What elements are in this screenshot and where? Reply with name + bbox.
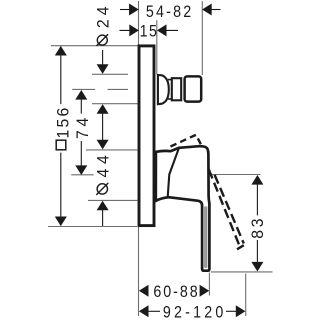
dashed lever tip	[237, 245, 244, 249]
knob flange	[158, 75, 169, 104]
svg-text:74: 74	[74, 114, 93, 139]
extension line V1 wall face top	[138, 1, 140, 45]
lever grip core	[204, 207, 207, 268]
dimension 92-120 bottom	[139, 303, 246, 320]
extension line V2 flange front	[156, 20, 158, 74]
dimension Ø44 lower arrow	[97, 201, 109, 226]
dimension 74 vertical	[74, 90, 93, 175]
extension line V4 wall face bottom	[138, 227, 140, 316]
dimension 54-82 top	[120, 3, 221, 21]
dimension Ø24 leader arrows	[97, 50, 109, 149]
knob neck lines	[168, 79, 172, 81]
dimension label Ø44 vertical	[94, 151, 113, 195]
extension line H3 knob center	[72, 88, 95, 90]
knob cylinder	[172, 78, 181, 100]
extension line H4 knob bottom	[92, 103, 138, 105]
dimension 60-88 bottom	[139, 283, 209, 301]
dashed lever top edge	[171, 135, 202, 147]
svg-text:83: 83	[249, 216, 268, 239]
dimension square156 vertical	[54, 46, 73, 226]
extension line H10 lever bottom level	[211, 271, 273, 273]
extension line V6 dashed lever tip 92-120	[245, 274, 247, 317]
extension line V3 spout tip	[201, 1, 203, 75]
extension line H9 pivot level right	[210, 174, 261, 176]
svg-text:92-120: 92-120	[163, 303, 227, 320]
dimension 83 vertical right	[249, 175, 268, 272]
extension line H8 pivot level left	[71, 174, 94, 176]
svg-text:54-82: 54-82	[146, 3, 193, 21]
lever crease	[168, 148, 179, 197]
lever outline	[156, 146, 210, 271]
extension line H2 knob top	[92, 73, 128, 75]
extension line H1 plate top	[51, 45, 138, 47]
wall plate	[139, 46, 154, 226]
svg-text:156: 156	[54, 105, 73, 138]
svg-text:24: 24	[94, 2, 113, 28]
knob end cap	[185, 76, 202, 101]
extension line H7 plate bottom	[48, 226, 137, 228]
dashed lever side 1	[209, 170, 240, 246]
svg-text:15: 15	[140, 23, 159, 41]
dimension label Ø24 vertical	[94, 2, 113, 46]
extension line H5 lever top	[86, 149, 137, 151]
extension line H6 lever base bottom	[88, 199, 137, 201]
dimension 15 plate depth	[120, 23, 179, 41]
dashed lever side 2	[215, 175, 244, 244]
svg-text:44: 44	[94, 151, 113, 178]
extension line V5 lever tip 60-88	[208, 273, 210, 296]
svg-text:60-88: 60-88	[153, 283, 199, 301]
